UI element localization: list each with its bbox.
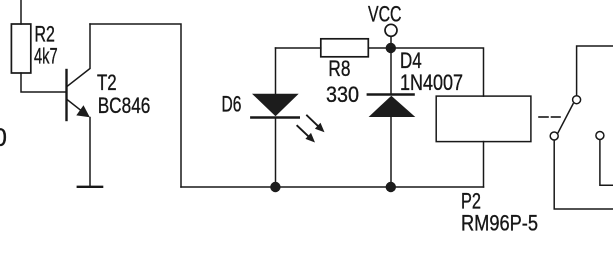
switch contact lower left (550, 132, 558, 140)
switch arm (558, 104, 573, 133)
wire bottom rail (181, 186, 484, 188)
svg-text:330: 330 (326, 82, 359, 107)
wire LED to R8 (276, 47, 321, 49)
wire VCC stub (390, 37, 392, 45)
svg-text:0: 0 (0, 124, 7, 152)
diode D4 cathode bar (368, 93, 414, 95)
switch contact upper (573, 96, 581, 104)
wire LED cathode down (275, 118, 277, 188)
VCC terminal circle (385, 24, 397, 36)
svg-text:1N4007: 1N4007 (400, 70, 463, 95)
transistor Q T2 base bar (65, 70, 67, 120)
transistor T2 emitter (67, 100, 88, 117)
svg-text:VCC: VCC (368, 2, 402, 27)
relay actuator dashed link (539, 116, 560, 118)
resistor R8 (321, 39, 369, 57)
relay P2 coil (436, 96, 531, 142)
transistor T2 emitter arrow (76, 105, 90, 117)
wire switch right down and out (600, 140, 613, 186)
wire R2 bottom to base (21, 73, 67, 92)
wire D4 anode down (390, 117, 392, 187)
wire R8 to VCC node (368, 47, 391, 49)
wire collector top run (90, 24, 181, 187)
diode D4 triangle (369, 96, 416, 117)
wire switch lower left down and out (554, 140, 613, 209)
switch contact right (596, 132, 604, 140)
ground (78, 186, 102, 188)
node rail junction dot D4 (386, 182, 396, 192)
wire LED anode up (275, 48, 277, 94)
node rail junction dot LED (270, 182, 280, 192)
LED D6 emission arrow 2 (297, 126, 315, 143)
svg-text:RM96P-5: RM96P-5 (461, 210, 538, 235)
LED D6 cathode bar (251, 116, 298, 118)
svg-text:T2: T2 (97, 70, 117, 95)
svg-text:4k7: 4k7 (34, 44, 58, 69)
svg-text:D6: D6 (222, 92, 242, 117)
wire emitter down (89, 118, 91, 187)
wire switch common up and out (577, 46, 613, 95)
svg-text:BC846: BC846 (98, 93, 151, 118)
wire VCC node to relay top (391, 48, 484, 96)
node VCC junction dot (386, 43, 396, 53)
wire relay bottom to rail (483, 142, 485, 187)
wire R2 top feed (20, 0, 22, 24)
LED D6 emission arrow 1 (307, 116, 325, 133)
transistor T2 collector (67, 24, 90, 87)
LED D6 triangle (252, 94, 299, 117)
svg-text:R8: R8 (328, 56, 350, 81)
wire D4 cathode up (390, 48, 392, 95)
resistor R2 (11, 24, 30, 73)
